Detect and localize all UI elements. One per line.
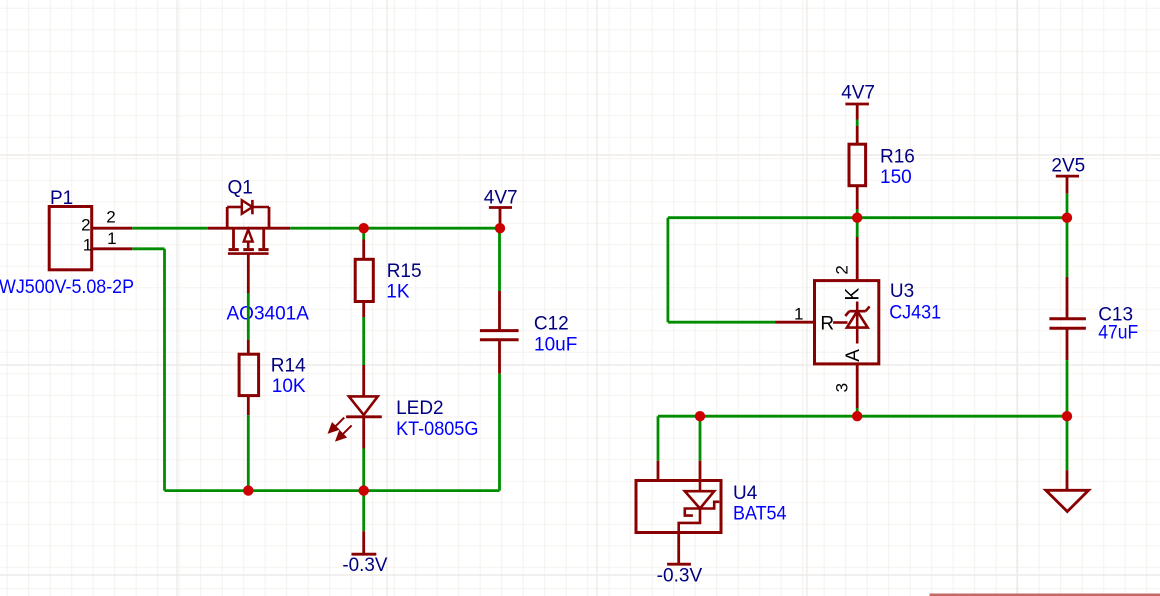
svg-text:R15: R15 xyxy=(387,261,422,282)
wire left vertical down xyxy=(163,249,166,491)
wire bottom node down xyxy=(362,491,365,532)
svg-text:150: 150 xyxy=(880,167,912,188)
svg-text:-0.3V: -0.3V xyxy=(342,555,387,576)
junction node R14 bottom xyxy=(243,485,253,495)
wire loop horizontal to U3 pin1 xyxy=(668,321,776,324)
svg-text:4V7: 4V7 xyxy=(484,187,518,208)
net label -0.3V under U4 xyxy=(657,566,703,587)
svg-text:KT-0805G: KT-0805G xyxy=(396,419,478,440)
svg-text:CJ431: CJ431 xyxy=(889,303,941,324)
svg-text:1: 1 xyxy=(83,236,92,255)
P1 value label WJ500V-5.08-2P xyxy=(0,277,134,298)
junction node U3 anode xyxy=(852,411,862,421)
net label 4V7 right xyxy=(841,83,875,104)
svg-text:1: 1 xyxy=(794,305,803,324)
wire U3 pin3 to bottom rail xyxy=(856,408,859,416)
U3 pin 2 number xyxy=(833,265,852,274)
U3 pin A name xyxy=(843,349,864,362)
net flag -0.3V under U4 xyxy=(667,563,691,566)
LED2 refdes label xyxy=(396,398,444,419)
wire to U4 pin right xyxy=(699,416,702,461)
diode U4 BAT54 xyxy=(636,461,721,564)
shunt regulator U3 CJ431 xyxy=(776,237,879,408)
U3 pin 3 number xyxy=(833,383,852,392)
R16 refdes label xyxy=(880,146,915,167)
junction node U4 xyxy=(695,411,705,421)
svg-text:2: 2 xyxy=(833,265,852,274)
svg-text:U4: U4 xyxy=(733,483,758,504)
wire gate to R14 xyxy=(247,293,250,340)
P1 pin 1 name xyxy=(83,236,92,255)
wire top rail right span xyxy=(857,216,1067,219)
svg-text:A: A xyxy=(843,349,864,362)
U3 value label CJ431 xyxy=(889,303,941,324)
Q1 gate pin down xyxy=(247,254,250,293)
R14 refdes label xyxy=(271,355,306,376)
svg-text:10K: 10K xyxy=(272,376,306,397)
svg-text:1: 1 xyxy=(107,229,116,248)
U3 refdes label xyxy=(890,281,914,302)
junction node LED bottom xyxy=(359,485,369,495)
wire LED2 to bottom rail xyxy=(362,449,365,491)
svg-text:BAT54: BAT54 xyxy=(733,504,787,525)
svg-text:R: R xyxy=(820,313,834,334)
R15 refdes label xyxy=(387,261,422,282)
svg-text:3: 3 xyxy=(833,383,852,392)
svg-text:47uF: 47uF xyxy=(1098,323,1138,344)
U4 value label BAT54 xyxy=(733,504,787,525)
ground xyxy=(1046,470,1089,511)
LED LED2 xyxy=(329,365,382,449)
sheet border line bottom right xyxy=(930,594,1160,596)
wire bottom rail segment 2 xyxy=(700,415,857,418)
wire P1 pin1 right xyxy=(132,247,164,250)
net flag -0.3V left xyxy=(352,531,377,554)
svg-text:2: 2 xyxy=(106,207,115,226)
Q1 value label AO3401A xyxy=(227,303,310,324)
resistor R14 xyxy=(239,340,259,416)
svg-text:LED2: LED2 xyxy=(396,398,444,419)
svg-text:10uF: 10uF xyxy=(534,334,577,355)
junction node C13 bottom xyxy=(1062,411,1072,421)
P1 pin 2 xyxy=(92,227,133,230)
net flag 4V7 right xyxy=(845,104,869,144)
svg-text:Q1: Q1 xyxy=(228,177,253,198)
wire R14 to bottom rail xyxy=(247,415,250,491)
resistor R16 xyxy=(849,144,866,209)
P1 pin 1 number xyxy=(107,229,116,248)
R14 value label 10K xyxy=(272,376,306,397)
svg-text:R14: R14 xyxy=(271,355,306,376)
svg-text:C12: C12 xyxy=(534,313,569,334)
svg-text:P1: P1 xyxy=(50,188,73,209)
wire C13 to bottom rail xyxy=(1066,360,1069,416)
wire Q1 to R15 node xyxy=(290,227,364,230)
Q1 refdes label xyxy=(228,177,253,198)
net flag 2V5 xyxy=(1056,176,1079,194)
svg-text:AO3401A: AO3401A xyxy=(227,303,310,324)
C12 refdes label xyxy=(534,313,569,334)
svg-text:R16: R16 xyxy=(880,146,915,167)
wire C12 to bottom corner xyxy=(498,374,501,491)
P1 refdes label xyxy=(50,188,73,209)
wire bottom rail segment 1 xyxy=(658,415,700,418)
wire R16 to top rail xyxy=(856,209,859,218)
R16 value label 150 xyxy=(880,167,912,188)
svg-text:-0.3V: -0.3V xyxy=(657,566,703,587)
R15 value label 1K xyxy=(386,281,410,302)
C12 value label 10uF xyxy=(534,334,577,355)
net label 2V5 xyxy=(1051,156,1085,177)
C13 refdes label xyxy=(1098,304,1133,325)
P1 pin 2 name xyxy=(81,215,90,234)
U3 pin R name xyxy=(820,313,834,334)
wire loop vertical xyxy=(667,218,670,323)
U3 pin K name xyxy=(842,288,863,301)
P1 pin 2 number xyxy=(106,207,115,226)
U3 pin 1 number xyxy=(794,305,803,324)
U4 refdes label xyxy=(733,483,758,504)
junction node 4V7 xyxy=(495,223,505,233)
wire P1 pin2 to Q1 xyxy=(132,227,208,230)
wire 2V5 to top rail xyxy=(1066,194,1069,218)
junction node R16 bottom xyxy=(852,213,862,223)
net label 4V7 left xyxy=(484,187,518,208)
wire top rail to U3 pin2 xyxy=(856,218,859,237)
svg-text:1K: 1K xyxy=(386,281,410,302)
wire top rail left span xyxy=(668,216,857,219)
wire node to R15 xyxy=(362,228,365,239)
P1 pin 1 xyxy=(92,247,133,250)
svg-text:2: 2 xyxy=(81,215,90,234)
wire 4V7 node to C12 xyxy=(498,228,501,291)
LED2 value label KT-0805G xyxy=(396,419,478,440)
junction node R15 top xyxy=(359,223,369,233)
wire to U4 pin left xyxy=(657,416,660,461)
wire top rail to C13 xyxy=(1066,218,1069,277)
capacitor C13 xyxy=(1049,277,1086,360)
svg-text:K: K xyxy=(842,288,863,301)
net label -0.3V left xyxy=(342,555,387,576)
svg-text:U3: U3 xyxy=(890,281,914,302)
C13 value label 47uF xyxy=(1098,323,1138,344)
wire R15 node to 4V7 node xyxy=(364,227,500,230)
svg-text:4V7: 4V7 xyxy=(841,83,875,104)
wire bottom rail segment 3 xyxy=(857,415,1067,418)
connector P1 xyxy=(49,207,91,270)
net flag 4V7 left xyxy=(489,208,512,229)
transistor Q1 AO3401A xyxy=(208,200,290,254)
capacitor C12 xyxy=(480,291,519,374)
wire bottom rail right xyxy=(364,489,500,492)
svg-text:2V5: 2V5 xyxy=(1051,156,1085,177)
svg-text:WJ500V-5.08-2P: WJ500V-5.08-2P xyxy=(0,277,134,298)
resistor R15 xyxy=(355,240,373,318)
junction node 2V5 xyxy=(1062,213,1072,223)
wire bottom rail to ground xyxy=(1066,416,1069,470)
wire bottom rail left xyxy=(165,489,364,492)
wire R15 to LED2 xyxy=(362,317,365,365)
